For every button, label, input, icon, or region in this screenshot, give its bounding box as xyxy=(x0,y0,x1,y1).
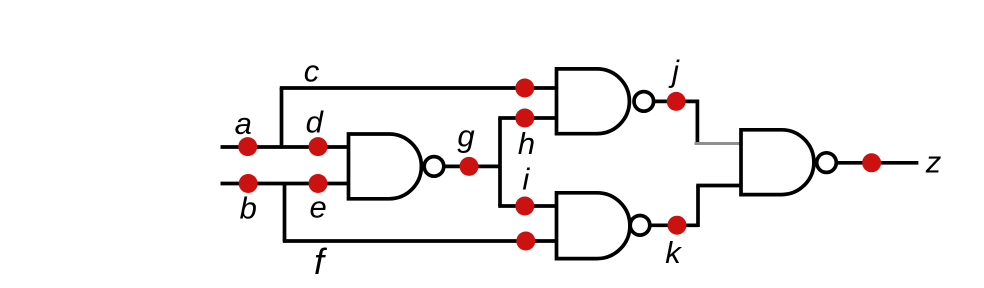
node i xyxy=(515,162,534,216)
svg-text:a: a xyxy=(235,106,252,141)
node f xyxy=(314,232,535,283)
wire k (U3 output) xyxy=(651,223,699,227)
wire k vertical rise xyxy=(696,186,700,228)
wire j gray stub to U4 top input xyxy=(695,142,743,145)
node b xyxy=(239,174,258,226)
node z (output) xyxy=(862,144,942,179)
wire c (net c to NAND U2 top input) xyxy=(280,86,557,90)
wire f (net f to NAND U3 bottom input) xyxy=(283,239,557,243)
svg-text:e: e xyxy=(309,189,326,224)
NAND gate U3 xyxy=(557,193,650,259)
wire f vertical branch from b xyxy=(283,182,287,241)
NAND gate U4 xyxy=(741,130,836,195)
wire c vertical branch from a xyxy=(280,88,284,148)
node c xyxy=(304,53,535,97)
node j xyxy=(667,54,686,111)
node g xyxy=(457,118,478,176)
wire k stub to U4 bottom input xyxy=(696,184,742,188)
NAND gate U2 xyxy=(557,69,654,134)
svg-text:i: i xyxy=(522,162,530,197)
wire h (to NAND U2 bottom input) xyxy=(498,116,557,120)
node k xyxy=(665,216,686,270)
svg-text:z: z xyxy=(925,144,942,179)
node e xyxy=(309,174,328,224)
wire j (U2 output) xyxy=(655,100,699,104)
svg-text:h: h xyxy=(518,126,535,161)
wire z (U4 output) xyxy=(838,161,918,165)
node a xyxy=(235,106,258,156)
svg-text:k: k xyxy=(665,235,682,270)
wire b (input b to NAND U1) xyxy=(221,182,350,186)
node h xyxy=(515,109,535,161)
svg-text:b: b xyxy=(240,191,257,226)
svg-text:d: d xyxy=(306,105,325,140)
wire i (to NAND U3 top input) xyxy=(498,204,557,208)
wire g split vertical xyxy=(498,118,502,206)
wire a (input a to NAND U1) xyxy=(221,145,350,149)
wire g (U1 output) xyxy=(445,165,501,169)
NAND gate U1 xyxy=(349,134,444,199)
svg-text:c: c xyxy=(304,53,320,88)
wire j vertical drop xyxy=(696,100,700,142)
node d xyxy=(306,105,328,157)
svg-text:g: g xyxy=(457,118,474,153)
